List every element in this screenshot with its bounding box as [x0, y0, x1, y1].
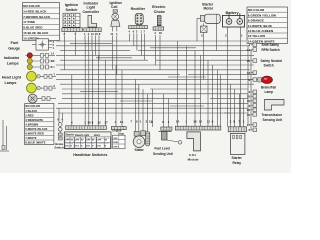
- wire: [95, 36, 97, 56]
- connector stub: [249, 78, 257, 82]
- wire: [138, 50, 252, 52]
- wire: [212, 65, 214, 126]
- electric choke connector: [153, 27, 164, 30]
- wire: [243, 99, 245, 127]
- svg-text:9:ORANGE: 9:ORANGE: [248, 19, 264, 23]
- svg-text:14:RED /BLACK: 14:RED /BLACK: [23, 9, 47, 13]
- svg-text:3:RED/WHITE: 3:RED/WHITE: [25, 118, 43, 122]
- wire: [56, 45, 250, 47]
- wire: [250, 51, 252, 131]
- wire: [56, 78, 258, 80]
- starter motor: [200, 2, 220, 23]
- svg-text:NO:COLOR: NO:COLOR: [25, 104, 40, 108]
- wire: [194, 51, 196, 127]
- wire: [177, 41, 179, 126]
- wire: [247, 46, 249, 126]
- wire: [75, 36, 77, 56]
- svg-text:14: 14: [247, 48, 251, 52]
- wire: [197, 17, 200, 19]
- fuel gauge: [8, 39, 54, 51]
- wire: [133, 34, 135, 46]
- svg-text:Indicator: Indicator: [4, 56, 20, 60]
- wire: [230, 84, 232, 127]
- wire: [185, 46, 187, 126]
- svg-text:Relay: Relay: [233, 161, 242, 165]
- wire: [210, 98, 248, 100]
- connector stub: [249, 90, 257, 94]
- wire: [147, 94, 149, 132]
- wire: [168, 99, 170, 127]
- svg-text:Rectifier: Rectifier: [131, 7, 146, 11]
- svg-text:Fuel: Fuel: [11, 41, 19, 45]
- wire: [200, 55, 202, 126]
- svg-text:13: 13: [97, 120, 101, 124]
- indicator lamp red: [26, 51, 56, 58]
- svg-text:Starter: Starter: [232, 156, 243, 160]
- svg-text:RPM Switch: RPM Switch: [262, 48, 280, 52]
- svg-text:Module: Module: [188, 157, 199, 161]
- wire: [64, 36, 66, 70]
- wire: [84, 36, 86, 42]
- connector stub: [249, 128, 257, 132]
- connector stub: [247, 71, 257, 75]
- wire: [60, 59, 148, 61]
- wire: [62, 93, 248, 95]
- svg-text:10: 10: [87, 120, 91, 124]
- wire: [70, 42, 112, 44]
- rectifier: [131, 7, 146, 25]
- wire: [203, 33, 205, 80]
- wire: [142, 89, 144, 131]
- wire: [2, 120, 4, 150]
- wire: [6, 126, 8, 150]
- wire: [239, 94, 241, 127]
- wire: [227, 27, 229, 127]
- svg-text:NO:COLOR: NO:COLOR: [23, 4, 40, 8]
- indicator lamp yellow 1: [27, 58, 55, 63]
- svg-text:RUN: RUN: [113, 142, 118, 144]
- stator: [133, 131, 150, 152]
- wire: [121, 70, 123, 127]
- svg-text:6:WHITE /RED: 6:WHITE /RED: [25, 132, 44, 136]
- wire: [188, 74, 256, 76]
- wire: [60, 50, 130, 52]
- wire: [60, 69, 250, 71]
- legend table top-left: [23, 3, 60, 41]
- wire: [138, 84, 140, 131]
- svg-text:20: 20: [247, 59, 251, 63]
- wire: [96, 57, 132, 59]
- svg-text:16: 16: [247, 99, 251, 103]
- engine stop switch: [112, 129, 125, 149]
- connector stub: [247, 94, 257, 98]
- head light lamp 1: [27, 71, 57, 81]
- svg-text:OFF: OFF: [97, 140, 102, 142]
- wire: [71, 75, 73, 126]
- label indicator lamps: [4, 56, 20, 65]
- svg-text:8:GREEN /YELLOW: 8:GREEN /YELLOW: [248, 13, 276, 17]
- svg-text:Sending Unit: Sending Unit: [153, 152, 174, 156]
- handlebar switches: [64, 132, 111, 149]
- fuel level sending unit: [153, 132, 182, 156]
- brake/tail lamp: [258, 76, 276, 94]
- connector stub: [247, 108, 257, 112]
- svg-text:20: 20: [247, 108, 251, 112]
- svg-text:Switch: Switch: [54, 146, 64, 150]
- svg-text:Head Light: Head Light: [2, 75, 22, 79]
- wire: [92, 51, 94, 126]
- wire: [120, 100, 152, 102]
- wire: [56, 54, 254, 56]
- svg-text:Motor: Motor: [204, 7, 214, 11]
- wire: [168, 76, 206, 78]
- svg-text:16: 16: [159, 31, 163, 35]
- svg-text:Lamps: Lamps: [5, 81, 17, 85]
- connector stub: [247, 59, 257, 63]
- wire: [98, 36, 100, 61]
- svg-text:Horn: Horn: [94, 133, 101, 137]
- svg-text:15: 15: [247, 95, 251, 99]
- ignition switch connector: [62, 28, 83, 32]
- svg-text:Coil: Coil: [111, 5, 117, 9]
- connector stub: [247, 48, 257, 52]
- wire: [56, 64, 254, 66]
- wire: [115, 65, 117, 127]
- svg-text:Shift Safety: Shift Safety: [262, 43, 280, 47]
- wire: [196, 18, 198, 41]
- brake switch: [54, 119, 64, 150]
- wire: [170, 105, 204, 107]
- connector stub: [247, 123, 257, 127]
- label head light lamps: [2, 75, 22, 85]
- svg-text:NO:COLOR: NO:COLOR: [248, 8, 265, 12]
- wire: [62, 98, 200, 100]
- wire: [159, 35, 161, 70]
- head light lamp 2: [27, 83, 57, 93]
- svg-text:Stator: Stator: [135, 148, 145, 152]
- svg-text:Battery: Battery: [226, 11, 240, 15]
- wire: [219, 75, 221, 127]
- svg-text:Lamp: Lamp: [265, 90, 274, 94]
- wire: [155, 35, 157, 65]
- engine stop connector: [111, 127, 126, 130]
- wire: [80, 90, 118, 92]
- wire: [150, 47, 196, 49]
- wire: [217, 70, 219, 126]
- starter fuse: [201, 23, 208, 32]
- svg-text:1:BLACK: 1:BLACK: [25, 109, 37, 113]
- connector stub: [247, 113, 257, 117]
- wire: [240, 27, 242, 127]
- svg-text:14: 14: [176, 120, 180, 124]
- wire: [56, 40, 246, 42]
- connector: [2, 146, 5, 150]
- wire: [0, 150, 9, 152]
- svg-text:10: 10: [247, 113, 251, 117]
- wire: [116, 36, 118, 75]
- svg-text:5:WHITE /BLACK: 5:WHITE /BLACK: [25, 127, 47, 131]
- indicator lamp yellow 2: [27, 64, 55, 69]
- svg-text:4: 4: [64, 32, 66, 36]
- svg-text:Handlebar Switches: Handlebar Switches: [73, 153, 107, 157]
- wire: [62, 88, 140, 90]
- svg-text:17: 17: [247, 123, 251, 127]
- svg-text:12:BLUE /GREEN: 12:BLUE /GREEN: [248, 29, 273, 33]
- wire: [60, 83, 254, 85]
- svg-text:4:BROWN: 4:BROWN: [25, 122, 38, 126]
- wire: [144, 34, 146, 61]
- wire: [61, 113, 63, 123]
- wire: [98, 55, 100, 125]
- wire: [233, 89, 235, 127]
- indicator light controller connector: [84, 28, 101, 32]
- wire: [156, 59, 250, 61]
- wire: [88, 46, 90, 126]
- ignition coil: [110, 1, 122, 32]
- electric choke: [152, 5, 165, 26]
- wire: [207, 60, 209, 126]
- svg-text:Stop: Stop: [118, 131, 124, 135]
- connector stub: [249, 104, 257, 108]
- wire: [162, 94, 164, 127]
- connector wheel: [28, 94, 56, 103]
- svg-text:11:WHITE /BLUE: 11:WHITE /BLUE: [248, 24, 272, 28]
- svg-text:Brake/Tail: Brake/Tail: [261, 85, 276, 89]
- svg-text:Ignition: Ignition: [65, 3, 79, 7]
- svg-text:Starter: Starter: [65, 133, 75, 137]
- legend table top-right: [247, 7, 288, 43]
- wire: [91, 36, 93, 51]
- wire: [58, 102, 248, 104]
- svg-text:11: 11: [207, 120, 211, 124]
- svg-text:2:RED: 2:RED: [25, 113, 33, 117]
- wire: [129, 34, 131, 42]
- svg-text:Choke: Choke: [154, 10, 165, 14]
- indicator light controller: [83, 1, 100, 27]
- wire: [88, 36, 90, 46]
- cdi connector: [175, 126, 221, 130]
- svg-text:8:BLUE /WHITE: 8:BLUE /WHITE: [25, 141, 45, 145]
- wire: [150, 88, 248, 90]
- svg-text:Lamps: Lamps: [7, 61, 19, 65]
- svg-text:7:BROWN /BLACK: 7:BROWN /BLACK: [23, 15, 51, 19]
- wire: [84, 41, 86, 126]
- svg-text:13:YELLOW: 13:YELLOW: [248, 34, 266, 38]
- transmission sensing unit: [262, 100, 285, 122]
- starter relay connector: [228, 127, 247, 132]
- svg-text:OFF: OFF: [75, 140, 80, 142]
- wire: [56, 107, 248, 109]
- wire: [224, 112, 248, 114]
- svg-text:15: 15: [120, 120, 124, 124]
- svg-text:10: 10: [95, 32, 99, 36]
- svg-text:Gauge: Gauge: [8, 47, 20, 51]
- svg-text:Switch: Switch: [66, 8, 79, 12]
- wire: [56, 74, 180, 76]
- wire: [58, 112, 230, 114]
- battery: [223, 11, 245, 27]
- rectifier connector: [129, 26, 148, 29]
- connector stub: [249, 43, 257, 47]
- svg-text:8:BLUE /RED: 8:BLUE /RED: [23, 26, 42, 30]
- svg-text:Transmission: Transmission: [262, 113, 283, 117]
- wire: [105, 60, 107, 126]
- svg-text:11: 11: [110, 32, 113, 36]
- svg-text:17: 17: [104, 120, 108, 124]
- cdi module: [187, 132, 201, 162]
- svg-text:7:WHITE: 7:WHITE: [25, 136, 36, 140]
- wire: [141, 34, 143, 56]
- connector stub: [247, 99, 257, 103]
- wire: [216, 23, 218, 50]
- fuel level connector: [161, 127, 172, 130]
- svg-text:Head Light: Head Light: [75, 133, 90, 137]
- wire: [58, 108, 60, 122]
- svg-text:OFF: OFF: [113, 138, 118, 140]
- svg-text:Sensing Unit: Sensing Unit: [263, 118, 283, 122]
- legend table bottom-left: [25, 104, 54, 145]
- svg-text:Controller: Controller: [83, 10, 100, 14]
- svg-text:Safety Neutral: Safety Neutral: [261, 59, 283, 63]
- wire: [135, 79, 137, 131]
- wire: [152, 89, 154, 127]
- svg-text:17:PINK: 17:PINK: [23, 20, 36, 24]
- svg-text:3: 3: [75, 32, 77, 36]
- starter relay: [231, 133, 245, 165]
- svg-text:Switch: Switch: [264, 63, 274, 67]
- svg-text:12: 12: [199, 120, 203, 124]
- ignition switch: [63, 3, 80, 27]
- wire: [136, 34, 138, 51]
- svg-text:Electric: Electric: [152, 5, 165, 9]
- wire: [112, 36, 114, 70]
- svg-text:18: 18: [193, 120, 197, 124]
- svg-text:13: 13: [247, 71, 251, 75]
- svg-text:Fuel Level: Fuel Level: [155, 147, 171, 151]
- handlebar connector: [66, 126, 107, 130]
- svg-text:OFF: OFF: [86, 140, 91, 142]
- svg-text:16:BLUE /BLACK: 16:BLUE /BLACK: [23, 31, 49, 35]
